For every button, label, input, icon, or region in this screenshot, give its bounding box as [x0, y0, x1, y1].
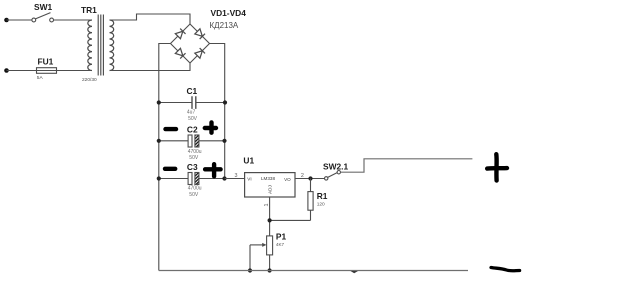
polarity plus C3 [205, 164, 221, 176]
svg-text:КД213А: КД213А [210, 21, 239, 30]
capacitor C1 [192, 96, 196, 109]
wire C2 row [159, 140, 225, 142]
capacitor C3 [188, 173, 199, 185]
wire pin 3 [225, 178, 245, 180]
node junction [222, 176, 226, 180]
wire C3 row [159, 178, 225, 180]
svg-text:R1: R1 [317, 191, 328, 201]
bridge rectifier diamond VD1-VD4 [171, 24, 210, 63]
svg-text:C3: C3 [187, 162, 198, 172]
node junction wiper [248, 268, 252, 272]
node input terminal top [4, 18, 9, 23]
svg-text:4u7: 4u7 [187, 110, 196, 116]
node junction [157, 139, 161, 143]
svg-text:SW2.1: SW2.1 [323, 162, 348, 172]
svg-text:C1: C1 [187, 86, 198, 96]
svg-text:50V: 50V [188, 116, 198, 122]
transformer TR1 secondary winding [110, 20, 114, 71]
wire switch to plus output [341, 159, 473, 172]
polarity plus C2 [205, 122, 216, 132]
node junction ADJ [268, 218, 272, 222]
svg-text:120: 120 [317, 201, 325, 207]
wire [54, 19, 93, 21]
svg-text:3: 3 [235, 173, 238, 179]
node junction R1 top [308, 176, 312, 180]
wire pin 2 [295, 178, 324, 180]
wire [7, 70, 93, 72]
svg-text:5А: 5А [37, 75, 44, 81]
resistor R1 [308, 179, 313, 221]
svg-text:4700u: 4700u [188, 149, 202, 155]
node input terminal bottom [4, 68, 9, 73]
svg-text:FU1: FU1 [38, 57, 54, 67]
potentiometer P1 wiper arrow [250, 244, 264, 246]
node junction [157, 176, 161, 180]
diode VD4 [195, 48, 205, 58]
wire negative bottom bus [159, 270, 468, 272]
wire secondary bottom to bridge [110, 63, 191, 71]
svg-text:LM338: LM338 [261, 176, 275, 181]
svg-text:TR1: TR1 [81, 5, 97, 15]
wire bridge right to positive bus [210, 44, 225, 179]
svg-text:220/30: 220/30 [82, 77, 97, 83]
fuse FU1 [37, 68, 57, 74]
node junction [223, 100, 227, 104]
wire C1 row [159, 102, 225, 104]
wire bridge left to negative bus [159, 44, 171, 271]
node junction P1 bottom [268, 268, 272, 272]
node junction [157, 100, 161, 104]
polarity minus C3 [165, 167, 175, 171]
regulator U1 body [245, 173, 295, 197]
diode VD2 [195, 29, 205, 39]
svg-text:P1: P1 [276, 232, 287, 242]
transformer TR1 core [98, 15, 103, 76]
output plus mark [487, 154, 507, 180]
diode VD3 [175, 48, 185, 58]
wire P1 bottom [269, 255, 271, 271]
junction artifact on bus [351, 271, 359, 273]
svg-text:VD1-VD4: VD1-VD4 [211, 8, 247, 18]
svg-text:50V: 50V [189, 155, 199, 161]
output minus mark [491, 268, 520, 271]
diode VD1 [175, 29, 185, 39]
svg-text:VI: VI [247, 177, 251, 182]
capacitor C2 [188, 135, 199, 147]
wire ADJ down [269, 197, 271, 236]
transformer TR1 primary winding [88, 20, 92, 71]
wire secondary top to bridge [110, 14, 191, 24]
node junction [222, 139, 226, 143]
wire wiper down [249, 245, 251, 271]
svg-text:ADJ: ADJ [267, 185, 272, 194]
svg-text:VO: VO [284, 177, 291, 182]
wire ADJ to R1 bottom [270, 219, 311, 221]
svg-text:C2: C2 [187, 125, 198, 135]
svg-text:U1: U1 [243, 155, 254, 165]
switch SW2.1 [325, 171, 341, 181]
svg-text:SW1: SW1 [34, 2, 52, 12]
svg-text:2: 2 [301, 173, 304, 179]
svg-text:4K7: 4K7 [276, 242, 285, 247]
potentiometer P1 body [267, 236, 273, 255]
svg-text:4700u: 4700u [188, 186, 202, 192]
wire [7, 19, 32, 21]
switch SW1 [32, 13, 54, 22]
polarity minus C2 [166, 127, 177, 131]
svg-text:50V: 50V [189, 192, 199, 198]
